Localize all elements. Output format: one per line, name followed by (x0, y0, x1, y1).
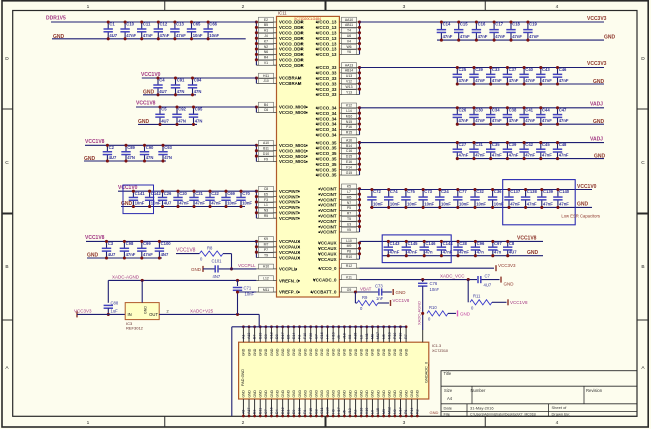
svg-text:C75: C75 (407, 189, 415, 194)
svg-text:VCCO_33: VCCO_33 (316, 76, 337, 81)
svg-text:DDR1V5: DDR1V5 (46, 16, 66, 22)
power port VCC1V8 at R9 (391, 298, 410, 306)
IC11 left pins VCCPAUX (255, 237, 300, 261)
svg-text:D15: D15 (346, 155, 352, 159)
svg-text:GND: GND (275, 348, 279, 356)
svg-text:4: 4 (556, 4, 559, 10)
net label VBAT (360, 286, 372, 291)
svg-text:C101: C101 (212, 258, 223, 263)
svg-text:47N: 47N (195, 118, 203, 123)
svg-text:D17: D17 (281, 332, 285, 339)
svg-text:M17: M17 (376, 332, 380, 339)
svg-text:G20: G20 (326, 407, 330, 414)
svg-text:M12: M12 (387, 407, 391, 414)
svg-text:GND: GND (527, 250, 539, 256)
wire VCC3V3 to REF3012 IN (77, 313, 125, 315)
capacitor C144 (437, 240, 454, 257)
svg-text:47nF: 47nF (195, 201, 205, 206)
svg-text:4U7: 4U7 (161, 118, 169, 123)
svg-text:47nF: 47nF (542, 78, 552, 83)
IC11 right pins VCCADC_0 (313, 275, 360, 283)
svg-text:GND: GND (376, 390, 380, 398)
svg-text:PAD:GND: PAD:GND (241, 369, 245, 386)
svg-text:K19: K19 (365, 408, 369, 414)
wire VREF vertical (237, 280, 239, 314)
svg-text:C88: C88 (111, 300, 119, 305)
svg-text:GND: GND (404, 390, 408, 398)
svg-text:G16: G16 (320, 332, 324, 339)
wire VBAT down to R9 (355, 292, 357, 303)
resistor R8 (199, 245, 223, 261)
svg-text:VCCAUX: VCCAUX (318, 241, 337, 246)
svg-text:C3: C3 (108, 241, 114, 246)
svg-text:47nF: 47nF (525, 118, 535, 123)
svg-text:VCCINT: VCCINT (320, 214, 337, 219)
svg-text:GND: GND (354, 390, 358, 398)
svg-text:C76: C76 (430, 281, 438, 286)
net label VCC1V8 (136, 101, 156, 107)
svg-text:G15: G15 (346, 171, 353, 175)
svg-text:K5: K5 (347, 185, 351, 189)
svg-text:47nF: 47nF (559, 78, 569, 83)
svg-text:AA13: AA13 (345, 63, 353, 67)
svg-text:B5: B5 (264, 23, 268, 27)
svg-text:47nF: 47nF (542, 118, 552, 123)
svg-text:C28: C28 (459, 241, 467, 246)
svg-text:T9: T9 (264, 253, 268, 257)
svg-text:A1: A1 (242, 335, 246, 339)
svg-text:C90: C90 (146, 145, 154, 150)
power port VCC1V8 at R11 (508, 299, 528, 305)
svg-text:GND: GND (504, 281, 515, 286)
svg-text:C16: C16 (346, 149, 352, 153)
svg-text:C26: C26 (459, 107, 467, 112)
svg-text:VCCO_35: VCCO_35 (316, 157, 337, 162)
svg-text:M3: M3 (382, 409, 386, 414)
svg-text:VCCO_35: VCCO_35 (316, 146, 337, 151)
svg-text:4U7: 4U7 (164, 201, 172, 206)
svg-text:1uF: 1uF (111, 308, 119, 313)
svg-text:C25: C25 (459, 67, 467, 72)
svg-text:E14: E14 (292, 333, 296, 339)
capacitor C12 (154, 20, 170, 40)
capacitor C141 (129, 190, 146, 208)
svg-text:GND: GND (309, 348, 313, 356)
svg-text:File: File (444, 411, 451, 416)
svg-text:C140: C140 (559, 189, 570, 194)
IC11 left pins VREFN_0 (256, 276, 299, 284)
capacitor C18 (506, 20, 522, 41)
svg-text:2: 2 (242, 4, 245, 10)
svg-text:47nF: 47nF (509, 153, 519, 158)
wire VCC1V0 rail (360, 189, 593, 191)
svg-text:VADJ: VADJ (590, 102, 603, 108)
svg-text:C17: C17 (495, 22, 503, 27)
svg-text:47nF: 47nF (559, 153, 569, 158)
svg-text:Drawn By:: Drawn By: (552, 411, 570, 416)
svg-text:GND: GND (430, 410, 439, 415)
svg-text:VCCO_34: VCCO_34 (316, 127, 337, 132)
svg-text:GND: GND (298, 390, 302, 398)
svg-text:E1: E1 (286, 410, 290, 414)
svg-text:1: 1 (87, 420, 90, 426)
svg-text:P10: P10 (393, 333, 397, 339)
svg-text:47nF: 47nF (176, 33, 186, 38)
svg-text:VCCO_33: VCCO_33 (316, 87, 337, 92)
capacitor C96 (471, 240, 485, 257)
svg-text:1nF: 1nF (376, 296, 384, 301)
svg-text:K7: K7 (264, 39, 268, 43)
svg-text:E16: E16 (346, 160, 352, 164)
svg-text:4U7: 4U7 (159, 89, 167, 94)
capacitor C38 (503, 106, 519, 125)
svg-text:47N: 47N (194, 89, 202, 94)
svg-text:W6: W6 (346, 45, 351, 49)
capacitor C15 (454, 20, 470, 41)
svg-text:47nF: 47nF (542, 153, 552, 158)
svg-text:N3: N3 (264, 209, 268, 213)
svg-text:XADC-AGND: XADC-AGND (417, 301, 422, 325)
svg-text:VCCPAUX: VCCPAUX (279, 239, 300, 244)
svg-text:GND: GND (348, 348, 352, 356)
svg-text:31-May-2016: 31-May-2016 (470, 406, 494, 411)
svg-text:VCCO_13: VCCO_13 (316, 52, 337, 57)
svg-text:Size: Size (444, 388, 453, 393)
svg-text:VCCO_DDR: VCCO_DDR (279, 20, 304, 25)
capacitor C26 (453, 106, 469, 125)
svg-text:D12: D12 (281, 407, 285, 414)
capacitor C101 (212, 258, 223, 279)
svg-text:GND: GND (343, 390, 347, 398)
svg-text:Date: Date (444, 406, 453, 411)
svg-text:GND: GND (247, 390, 251, 398)
svg-text:P6: P6 (404, 410, 408, 414)
svg-text:F14: F14 (346, 165, 352, 169)
svg-text:L14: L14 (346, 109, 352, 113)
IC11 right pins VCCO_33 (316, 63, 361, 97)
capacitor C27 (453, 141, 469, 160)
svg-text:A10: A10 (263, 141, 269, 145)
wire REF3012 OUT (XADC+V25) (159, 309, 259, 327)
capacitor C42 (519, 141, 535, 160)
capacitor C34 (486, 106, 502, 125)
svg-text:N9: N9 (393, 409, 397, 414)
net label XADC_VCC (440, 273, 465, 278)
svg-text:GND: GND (315, 390, 319, 398)
svg-text:C2: C2 (109, 145, 115, 150)
svg-text:C5: C5 (161, 107, 167, 112)
svg-text:47N: 47N (146, 155, 154, 160)
svg-text:10nF: 10nF (135, 201, 145, 206)
svg-text:10nF: 10nF (424, 201, 434, 206)
svg-text:C37: C37 (509, 67, 517, 72)
capacitor C140 (553, 188, 570, 209)
capacitor C3 (102, 240, 116, 260)
svg-text:C21: C21 (195, 191, 203, 196)
svg-text:D8: D8 (275, 334, 279, 339)
svg-text:C98: C98 (126, 241, 134, 246)
svg-text:GND: GND (393, 348, 397, 356)
svg-text:GND: GND (281, 348, 285, 356)
svg-text:C142: C142 (151, 191, 162, 196)
svg-text:VCC1V8: VCC1V8 (136, 101, 156, 107)
svg-text:P5: P5 (347, 206, 351, 210)
svg-text:VCCO_34: VCCO_34 (316, 133, 337, 138)
svg-text:C99: C99 (143, 241, 151, 246)
svg-text:N15: N15 (346, 120, 352, 124)
IC11 left pins VCCPINT (255, 186, 300, 221)
svg-text:47nF: 47nF (126, 252, 136, 257)
svg-text:G7: G7 (314, 334, 318, 339)
capacitor C70 (236, 190, 252, 208)
svg-text:VCCO_35: VCCO_35 (316, 140, 337, 145)
capacitor C92 (172, 105, 186, 126)
svg-text:47nF: 47nF (160, 33, 170, 38)
net label VADJ (590, 102, 603, 108)
svg-text:GND: GND (292, 348, 296, 356)
svg-text:VCCIO_MIO1: VCCIO_MIO1 (279, 154, 307, 159)
capacitor C32 (470, 188, 486, 209)
svg-text:GND: GND (393, 390, 397, 398)
svg-text:GND: GND (326, 390, 330, 398)
svg-text:K11: K11 (346, 275, 352, 279)
svg-text:Sheet of: Sheet of (552, 405, 568, 410)
svg-text:47nF: 47nF (443, 34, 453, 39)
svg-text:K10: K10 (359, 408, 363, 414)
capacitor C4 (153, 76, 167, 96)
svg-text:C39: C39 (509, 142, 517, 147)
ground port pink GND (458, 310, 471, 316)
svg-text:GND: GND (247, 348, 251, 356)
svg-text:B: B (641, 264, 644, 270)
highlight box around C141 C142 (123, 185, 154, 214)
capacitor C39 (503, 141, 519, 160)
svg-text:2: 2 (167, 309, 169, 313)
capacitor C11 (137, 20, 153, 40)
net label VCC1V0 (577, 184, 597, 190)
svg-text:VCCO_DDR: VCCO_DDR (279, 41, 304, 46)
capacitor C74 (384, 188, 400, 209)
svg-text:GND: GND (348, 390, 352, 398)
svg-text:C47: C47 (559, 107, 567, 112)
capacitor C65 (187, 20, 203, 40)
svg-text:C66: C66 (209, 22, 217, 27)
svg-text:GND: GND (253, 348, 257, 356)
capacitor C36 (488, 188, 504, 209)
svg-text:GND: GND (320, 390, 324, 398)
svg-text:L10: L10 (346, 239, 352, 243)
capacitor C45 (536, 141, 552, 160)
svg-text:47nF: 47nF (559, 118, 569, 123)
svg-text:VCCINT: VCCINT (320, 208, 337, 213)
svg-text:47n: 47n (494, 250, 502, 255)
svg-text:C89: C89 (127, 145, 135, 150)
svg-text:C7: C7 (485, 273, 491, 278)
svg-text:C15: C15 (460, 22, 468, 27)
svg-text:GND: GND (371, 390, 375, 398)
svg-text:VCC1V8: VCC1V8 (393, 298, 410, 303)
svg-text:47N: 47N (178, 118, 186, 123)
svg-text:VCC1V8: VCC1V8 (85, 235, 105, 241)
svg-text:P8: P8 (347, 250, 351, 254)
svg-text:VCCPINT: VCCPINT (279, 189, 299, 194)
capacitor C95 (189, 105, 203, 126)
title block (441, 371, 637, 417)
wire GND ring left (231, 327, 233, 416)
svg-text:A5: A5 (242, 410, 246, 414)
svg-text:GND: GND (360, 348, 364, 356)
capacitor C73 (375, 284, 384, 301)
svg-text:VCCINT: VCCINT (320, 203, 337, 208)
svg-text:GND: GND (337, 348, 341, 356)
svg-text:GND: GND (331, 348, 335, 356)
wire GND rail under VCC3V3 caps (457, 79, 605, 85)
svg-text:E2: E2 (264, 18, 268, 22)
svg-text:V4: V4 (347, 39, 351, 43)
svg-text:GND: GND (242, 348, 246, 356)
IC11 right pins VCCINT (318, 184, 361, 235)
wire VREFP to M11 (236, 290, 256, 293)
fpga IC11 body (277, 11, 340, 298)
svg-text:C94: C94 (194, 78, 202, 83)
svg-text:C8: C8 (264, 187, 268, 191)
svg-text:GND: GND (388, 348, 392, 356)
svg-text:C72: C72 (373, 189, 381, 194)
svg-text:L15: L15 (376, 408, 380, 414)
svg-text:C16: C16 (270, 407, 274, 414)
svg-text:VCC3V3: VCC3V3 (587, 16, 607, 22)
svg-text:47nF: 47nF (492, 153, 502, 158)
IC11 left pins VCCO_DDR (255, 17, 305, 68)
svg-text:L11: L11 (365, 333, 369, 339)
svg-text:P19: P19 (399, 333, 403, 339)
svg-text:VCCO_35: VCCO_35 (316, 167, 337, 172)
svg-text:GND: GND (399, 348, 403, 356)
IC11 right pins VCCO_34 (316, 103, 361, 138)
svg-text:47nF: 47nF (390, 250, 400, 255)
highlight box Low ESR capacitors (503, 180, 600, 225)
svg-text:10nF: 10nF (242, 201, 252, 206)
svg-text:47nF: 47nF (211, 201, 221, 206)
svg-text:C32: C32 (476, 189, 484, 194)
svg-text:G11: G11 (320, 407, 324, 414)
svg-text:C141: C141 (135, 191, 146, 196)
svg-text:C97: C97 (494, 241, 502, 246)
svg-text:VCCO_DDR: VCCO_DDR (279, 52, 304, 57)
svg-text:J5: J5 (342, 410, 346, 414)
capacitor C43 (536, 66, 552, 86)
svg-text:47nF: 47nF (529, 34, 539, 39)
svg-text:VCC3V3: VCC3V3 (587, 61, 607, 67)
svg-text:VCCPAUX: VCCPAUX (279, 245, 300, 250)
svg-text:VCC1V8: VCC1V8 (517, 235, 537, 241)
capacitor C98 (120, 240, 136, 260)
capacitor C93 (158, 144, 172, 163)
svg-text:C146: C146 (425, 241, 436, 246)
svg-text:C91: C91 (177, 78, 185, 83)
svg-text:VCCINT: VCCINT (320, 192, 337, 197)
svg-text:VCCPAUX: VCCPAUX (279, 250, 300, 255)
svg-text:GND: GND (396, 290, 407, 295)
net label VCC1V8 (517, 235, 537, 241)
svg-text:P16: P16 (346, 125, 352, 129)
svg-text:M11: M11 (263, 288, 269, 292)
capacitor C21 (189, 190, 205, 208)
svg-text:VBAT: VBAT (360, 286, 372, 291)
svg-text:C12: C12 (270, 332, 274, 339)
IC11 left pins VCCIO_MIO0 (255, 102, 308, 115)
svg-text:B4: B4 (264, 103, 268, 107)
svg-text:C73: C73 (424, 189, 432, 194)
svg-text:VCCPAUX: VCCPAUX (279, 255, 300, 260)
svg-text:GND: GND (303, 348, 307, 356)
IC11 left pins VCCBRAM (255, 73, 302, 86)
svg-text:C30: C30 (475, 107, 483, 112)
svg-text:C95: C95 (195, 107, 203, 112)
svg-text:VCCO_33: VCCO_33 (316, 71, 337, 76)
svg-text:J18: J18 (342, 333, 346, 339)
svg-text:C12: C12 (160, 22, 168, 27)
svg-text:C13: C13 (176, 22, 184, 27)
svg-text:R10: R10 (429, 305, 437, 310)
wire GND rail under VCC1V8 caps (84, 156, 166, 162)
wire VCC1V8 rail (360, 240, 544, 242)
capacitor C76 (418, 280, 439, 292)
svg-text:47nF: 47nF (459, 78, 469, 83)
svg-text:C10: C10 (126, 22, 134, 27)
capacitor C1 (104, 20, 118, 40)
svg-text:Y13: Y13 (346, 90, 352, 94)
svg-text:10nF: 10nF (151, 201, 161, 206)
svg-text:VCCIO_MIO1: VCCIO_MIO1 (279, 148, 307, 153)
wire VCCBATT_0 VBAT (354, 290, 378, 293)
svg-text:R8: R8 (207, 245, 213, 250)
svg-text:VCCINT: VCCINT (320, 219, 337, 224)
svg-text:47nF: 47nF (459, 250, 469, 255)
svg-text:GND: GND (270, 348, 274, 356)
svg-text:VCCO_33: VCCO_33 (316, 92, 337, 97)
IC11 right pins VCCO_13 (316, 17, 361, 57)
svg-text:XC7Z010: XC7Z010 (432, 349, 448, 353)
svg-text:C31: C31 (475, 142, 483, 147)
svg-text:VCCBATT_0: VCCBATT_0 (311, 290, 337, 295)
svg-text:GND: GND (287, 390, 291, 398)
net label VCC1V8 at R8 (176, 248, 196, 254)
svg-text:GND: GND (253, 390, 257, 398)
net label VCC1V8 (85, 235, 105, 241)
svg-text:B: B (5, 264, 8, 270)
svg-text:47nF: 47nF (408, 250, 418, 255)
resistor R11 (470, 294, 492, 311)
svg-text:4N7: 4N7 (161, 252, 169, 257)
svg-text:47n: 47n (477, 250, 485, 255)
capacitor C97 (488, 240, 502, 257)
capacitor C7 (478, 273, 492, 287)
wire VCC1V8 rail (85, 144, 256, 146)
net label VCC1V8 (85, 139, 105, 145)
svg-text:H4: H4 (326, 334, 330, 339)
capacitor C5 (155, 105, 169, 126)
IC11 left pins VCCPLL (256, 264, 297, 272)
capacitor C10 (120, 20, 136, 40)
svg-text:C73: C73 (375, 284, 383, 289)
svg-text:47nF: 47nF (543, 201, 553, 206)
capacitor C138 (521, 188, 538, 209)
wire R11 to VCC1V8 (492, 301, 507, 303)
capacitor C44 (536, 106, 552, 125)
wire DDR1V5 rail (51, 21, 256, 23)
svg-text:VCCO_34: VCCO_34 (316, 106, 337, 111)
